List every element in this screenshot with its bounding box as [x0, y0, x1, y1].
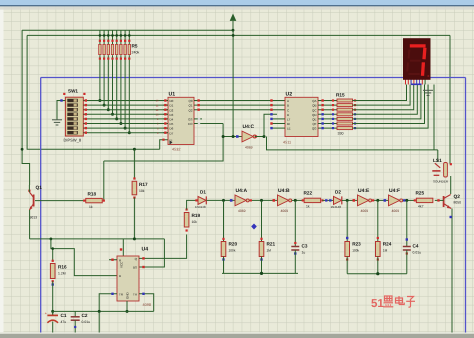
inverter gate U4:E — [358, 195, 369, 206]
U4 pin Q to R19 — [139, 235, 187, 259]
wire VCC drop at x233 — [232, 30, 234, 136]
svg-text:1N4148: 1N4148 — [195, 205, 206, 209]
wire ground node rail at C1 C2 — [53, 310, 154, 312]
inverter gate U4:A — [235, 195, 246, 206]
svg-text:Q0: Q0 — [188, 99, 192, 103]
wire switch row 4 to U1 — [88, 113, 168, 115]
wire right vertical VCC drop to LS1 — [449, 35, 451, 163]
resistor pack R15 (7 segment resistors) — [337, 99, 353, 102]
wire Q2 base from R25 — [435, 199, 444, 201]
blue diamond marker — [251, 224, 257, 230]
diode D1 — [198, 196, 206, 204]
wire drop to R20 — [223, 200, 225, 241]
wire node down to bottom — [98, 311, 100, 332]
svg-text:QB: QB — [312, 104, 316, 108]
svg-text:R20: R20 — [229, 242, 238, 247]
U4 GND pin down — [126, 301, 128, 311]
wire purple bus right vertical — [465, 78, 467, 333]
svg-text:10k: 10k — [139, 189, 145, 193]
wire LS1 bottom to Q2 collector — [450, 176, 452, 194]
wire rail down to U4 second pin — [139, 239, 164, 267]
wire drop to C3 — [294, 200, 296, 244]
svg-text:QF: QF — [312, 122, 316, 126]
svg-text:SOUNDER: SOUNDER — [433, 180, 449, 184]
svg-text:LE: LE — [287, 127, 291, 131]
7-segment display LED body — [403, 38, 431, 80]
U1 pin GS stub — [194, 118, 202, 120]
wire sounder line down to LS1 — [437, 150, 439, 162]
svg-text:U1: U1 — [169, 92, 176, 98]
svg-text:C2: C2 — [82, 313, 88, 318]
wire R22 to D2 — [322, 199, 333, 201]
wire drop to R24 — [377, 200, 379, 241]
wire VCC top rail lower — [27, 34, 450, 36]
svg-text:R25: R25 — [416, 191, 425, 196]
resistor R22 — [304, 198, 321, 202]
dip switch SW1 — [65, 97, 83, 136]
capacitor C2 — [74, 311, 76, 316]
wire Q1 base net to U4:C input — [104, 124, 223, 162]
wire U1 Q1 to U2 — [194, 104, 285, 106]
svg-text:C4: C4 — [413, 244, 419, 249]
wire resistor pack column 4 — [112, 30, 114, 44]
wire resistor pack column 2 — [103, 30, 105, 44]
wire lower rail left group — [222, 272, 298, 274]
resistor R24 — [376, 242, 381, 257]
svg-text:GS: GS — [188, 118, 192, 122]
inverter gate U4:C — [242, 131, 253, 142]
capacitor C4 — [406, 244, 408, 246]
wire U2 QF to resistor pack — [318, 123, 337, 125]
wire resistor pack column 1 — [99, 30, 101, 44]
svg-text:Q2: Q2 — [454, 194, 461, 200]
wire resistor pack column 7 — [124, 30, 126, 44]
wire R18 right to staircase — [103, 161, 105, 201]
svg-text:4532: 4532 — [172, 148, 180, 152]
svg-text:U4:C: U4:C — [243, 124, 255, 130]
svg-text:U4:B: U4:B — [278, 188, 290, 194]
U1 pin EO wire — [194, 123, 223, 125]
junction left rail — [21, 148, 24, 151]
IC U1 4532 priority encoder — [168, 97, 194, 144]
wire switch row 7 to U1 — [88, 127, 168, 129]
wire U1 Q2 to U2 — [194, 109, 285, 111]
wire Q1 emitter down — [29, 210, 31, 239]
svg-text:QA: QA — [312, 99, 316, 103]
transistor Q1 9013 — [33, 195, 35, 207]
wire U1 EO to node — [223, 136, 242, 138]
U4 pin TR — [99, 294, 117, 312]
svg-text:R17: R17 — [139, 182, 148, 187]
svg-text:1.2M: 1.2M — [58, 272, 66, 276]
svg-text:D6: D6 — [170, 127, 174, 131]
svg-text:330: 330 — [338, 132, 344, 136]
wire emitter Q2 down to bottom — [451, 209, 453, 333]
svg-text:U4:E: U4:E — [358, 188, 370, 194]
wire lower rail right group — [347, 273, 407, 275]
svg-text:C1: C1 — [61, 313, 67, 318]
wire U2 QA to resistor pack — [318, 100, 337, 102]
IC U4 4098 monostable — [117, 256, 139, 301]
wire step down to R16 and D pin — [51, 239, 117, 276]
svg-text:R24: R24 — [383, 242, 392, 247]
svg-text:4098: 4098 — [143, 303, 151, 307]
svg-text:D0: D0 — [170, 99, 174, 103]
svg-text:10k: 10k — [192, 220, 198, 224]
svg-text:C3: C3 — [302, 244, 308, 249]
resistor R19 — [184, 213, 189, 228]
wire Q1 base to R18 — [35, 200, 86, 202]
wire U4:A out to U4:B — [249, 199, 277, 201]
svg-text:BS: BS — [133, 266, 137, 270]
svg-text:100k: 100k — [229, 249, 236, 253]
wire mid rail y239 — [30, 238, 165, 240]
resistor R16 — [50, 264, 55, 279]
wire U2 QD to resistor pack — [318, 113, 337, 115]
wire purple bus horizontal — [41, 77, 466, 79]
wire left outer vertical — [22, 30, 30, 185]
svg-text:QE: QE — [312, 118, 316, 122]
power rail arrow VCC — [232, 21, 234, 30]
svg-text:4k7: 4k7 — [418, 205, 424, 209]
resistor R25 — [416, 198, 433, 202]
svg-text:Q2: Q2 — [188, 108, 192, 112]
svg-text:Q1: Q1 — [36, 185, 43, 191]
svg-text:4069: 4069 — [281, 209, 289, 213]
svg-text:LS1: LS1 — [433, 158, 442, 164]
wire U4:E out to U4:F — [372, 199, 389, 201]
U4 pin TH — [139, 294, 154, 312]
svg-text:U4:A: U4:A — [236, 188, 248, 194]
diode D2 — [334, 196, 342, 204]
wire switch row 2 to U1 — [88, 104, 168, 106]
svg-text:0.01u: 0.01u — [413, 251, 422, 255]
svg-text:R16: R16 — [58, 265, 67, 270]
wire resistor pack column 6 — [120, 30, 122, 44]
resistor R21 — [259, 242, 264, 257]
wire D2 to U4:E — [342, 199, 358, 201]
svg-text:1u: 1u — [302, 251, 306, 255]
svg-text:1k: 1k — [306, 205, 310, 209]
svg-text:U4:F: U4:F — [389, 188, 400, 194]
7-segment dim segments — [407, 50, 421, 75]
wire R19 top to D1 — [187, 200, 197, 209]
wire U2 QC to resistor pack — [318, 109, 337, 111]
wire LS1 right pin — [450, 163, 452, 165]
svg-text:1N4148: 1N4148 — [331, 205, 342, 209]
svg-text:R22: R22 — [304, 191, 313, 196]
7-segment lit segments digit 7 — [410, 46, 426, 76]
svg-text:D2: D2 — [170, 108, 174, 112]
svg-text:U2: U2 — [286, 92, 293, 98]
wire switch row 6 to U1 — [88, 123, 168, 125]
wire U2 QG to resistor pack — [318, 127, 337, 129]
wire drop to C4 — [406, 200, 408, 244]
capacitor C3 — [294, 244, 296, 246]
wire R17 bottom down to VCC rail — [133, 198, 135, 239]
svg-text:1k: 1k — [89, 205, 93, 209]
wire display extra pin down — [433, 85, 435, 150]
svg-text:240k: 240k — [132, 51, 140, 55]
transistor Q2 8050 — [443, 196, 445, 207]
wire Q1 collector from rail — [28, 185, 30, 192]
wire display pin to ground — [427, 85, 429, 91]
wire SW1 common to ground — [57, 101, 65, 120]
resistor R18 — [86, 198, 103, 202]
wire resistor pack column 5 — [116, 30, 118, 44]
resistor R20 — [221, 242, 226, 257]
svg-text:R19: R19 — [192, 213, 201, 218]
svg-text:EO: EO — [188, 122, 193, 126]
left margin strip — [0, 0, 4, 338]
junction dot R17 top — [133, 148, 136, 151]
ground under display — [423, 89, 433, 91]
inverter gate U4:F — [389, 195, 400, 206]
wire drop to R21 — [261, 200, 263, 241]
svg-text:D7: D7 — [170, 131, 174, 135]
svg-text:SW1: SW1 — [68, 89, 78, 94]
wire VCC top rail upper — [22, 29, 233, 31]
wire U2 QB to resistor pack — [318, 104, 337, 106]
wire U4 VCC pin up — [122, 239, 124, 256]
svg-text:D1: D1 — [170, 104, 174, 108]
wire U4:F out to R25 — [403, 199, 416, 201]
svg-text:D5: D5 — [170, 122, 174, 126]
top window bar — [0, 0, 474, 5]
wire U4:C output net — [255, 136, 264, 138]
svg-text:R18: R18 — [88, 192, 97, 197]
svg-text:47u: 47u — [61, 320, 67, 324]
svg-text:A: A — [287, 99, 289, 103]
wire switch row 8 to U1 — [88, 132, 168, 134]
wire resistor pack column 8 — [128, 30, 130, 44]
svg-text:D2: D2 — [335, 189, 341, 194]
wire switch row 1 to U1 — [88, 100, 168, 102]
watermark 51heidianzi — [371, 296, 415, 310]
svg-text:Q1: Q1 — [188, 104, 192, 108]
resistor R17 — [132, 181, 137, 195]
svg-text:B: B — [287, 104, 289, 108]
wire U4:B out to R22 — [292, 199, 303, 201]
svg-text:4069: 4069 — [245, 145, 253, 149]
junction dots pack columns to switch rows — [98, 99, 101, 102]
wire U1 Q0 to U2 — [194, 100, 285, 102]
svg-text:BI: BI — [287, 122, 290, 126]
svg-text:4069: 4069 — [361, 209, 369, 213]
wire U1 pin EI stub — [160, 140, 168, 150]
svg-text:QG: QG — [312, 127, 317, 131]
svg-text:D4: D4 — [170, 118, 174, 122]
wire switch row 5 to U1 — [88, 118, 168, 120]
svg-text:D3: D3 — [170, 113, 174, 117]
capacitor C1 electrolytic — [52, 311, 54, 315]
svg-text:9013: 9013 — [30, 216, 38, 220]
svg-text:4069: 4069 — [392, 209, 400, 213]
svg-text:4511: 4511 — [283, 141, 291, 145]
wire drop to R23 — [346, 200, 348, 241]
ground at SW1 — [52, 119, 62, 121]
svg-text:R15: R15 — [336, 93, 345, 98]
display pin stubs — [405, 80, 407, 85]
svg-text:4069: 4069 — [238, 209, 246, 213]
inverter gate U4:B — [278, 195, 289, 206]
svg-text:U4: U4 — [142, 247, 149, 253]
svg-text:8050: 8050 — [454, 201, 462, 205]
wire U4:C output down to sounder line — [267, 137, 438, 150]
wire U2 QE to resistor pack — [318, 118, 337, 120]
svg-text:DIPSW_8: DIPSW_8 — [64, 138, 82, 143]
resistor pack R5 (8 pull-up resistors) — [99, 44, 101, 54]
wire segment row to display staircase — [353, 85, 429, 129]
svg-text:1M: 1M — [267, 249, 272, 253]
svg-text:GND: GND — [126, 292, 130, 300]
IC U2 4511 decoder — [285, 97, 318, 136]
svg-text:1M: 1M — [383, 249, 388, 253]
blue level bar near display pins — [411, 83, 422, 85]
wire R16 top stub — [52, 249, 54, 261]
wire purple bus left vertical — [40, 78, 42, 333]
svg-text:R5: R5 — [132, 44, 138, 49]
svg-text:100k: 100k — [352, 249, 359, 253]
svg-text:TH: TH — [133, 292, 137, 296]
wire resistor pack column 3 — [107, 30, 109, 44]
svg-text:LT: LT — [287, 118, 290, 122]
wire left inner vertical to node row — [27, 35, 160, 149]
svg-text:R21: R21 — [267, 242, 276, 247]
wire R16 bottom to C1 node — [52, 281, 54, 315]
wire switch row 3 to U1 — [88, 109, 168, 111]
wire D1 to U4:A — [207, 199, 236, 201]
U4 pin R — [109, 259, 117, 261]
wire R17 top vertical — [133, 149, 135, 178]
svg-text:R23: R23 — [352, 242, 361, 247]
svg-text:51: 51 — [371, 298, 384, 310]
svg-text:D1: D1 — [200, 189, 206, 194]
bottom window bar — [0, 332, 474, 334]
resistor R23 — [345, 242, 350, 257]
svg-text:0.01u: 0.01u — [82, 320, 91, 324]
